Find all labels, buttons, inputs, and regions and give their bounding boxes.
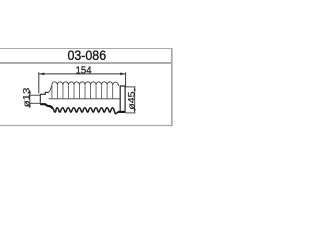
dia13 top extension line: [30, 94, 41, 96]
dia13 dimension line: [29, 91, 31, 108]
dia13 bottom extension line: [30, 102, 41, 104]
svg-text:ø13: ø13: [21, 88, 32, 108]
bellows scalloped top outline: [49, 82, 119, 93]
dimension 154 right extension line: [125, 72, 127, 86]
boot small tube (left end): [40, 92, 48, 103]
cell right border: [171, 48, 173, 126]
boot bottom wavy silhouette: [53, 108, 119, 114]
boot large end ring bottom thick edge: [118, 111, 126, 113]
boot large end ring: [120, 86, 125, 112]
svg-text:03-086: 03-086: [68, 48, 107, 63]
dia45 dimension line: [134, 87, 136, 112]
bellows baseline (pleat root line): [49, 98, 121, 100]
dimension 154 left extension line: [38, 72, 40, 93]
header rule bottom: [0, 62, 172, 64]
header rule top: [0, 48, 172, 50]
dia45 top arrow: [134, 87, 136, 91]
bellows pleat fold lines: [52, 85, 113, 99]
dia13 bottom arrow: [29, 103, 31, 106]
dimension 154 line: [39, 73, 125, 75]
dia45 bottom extension line: [126, 112, 136, 114]
cell bottom rule: [0, 125, 172, 127]
dia45 bottom arrow: [134, 109, 136, 113]
dia13 top arrow: [29, 92, 31, 95]
boot small tube bottom thick edge: [40, 104, 52, 108]
dimension 154 right arrow: [120, 73, 126, 76]
dimension 154 left arrow: [39, 73, 45, 76]
dia45 top extension line: [126, 86, 136, 88]
svg-text:ø45: ø45: [126, 91, 137, 109]
svg-text:154: 154: [76, 66, 92, 77]
